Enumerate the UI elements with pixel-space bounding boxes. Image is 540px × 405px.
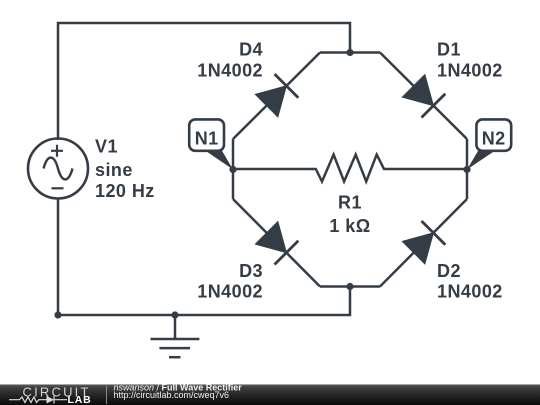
junction dot top vertex: [346, 49, 353, 56]
resistor R1: [233, 155, 467, 182]
svg-text:sine: sine: [95, 160, 133, 180]
label D2: [437, 261, 503, 302]
node N1: [189, 119, 233, 169]
footer separator: [106, 386, 107, 404]
svg-text:http://circuitlab.com/cweq7v6: http://circuitlab.com/cweq7v6: [114, 390, 230, 400]
svg-text:1N4002: 1N4002: [197, 61, 263, 81]
svg-text:D1: D1: [437, 40, 461, 60]
wire upper-left side: [233, 53, 320, 140]
svg-text:D4: D4: [239, 40, 263, 60]
svg-text:1 kΩ: 1 kΩ: [329, 216, 370, 236]
label V1 sine 120 Hz: [95, 137, 155, 202]
svg-text:1N4002: 1N4002: [437, 61, 503, 81]
svg-text:N1: N1: [195, 128, 219, 148]
wire lower-left side: [233, 199, 320, 287]
diode D3: [255, 221, 299, 265]
wire top rail: [58, 23, 350, 140]
wire bottom rail: [58, 287, 350, 316]
label R1 1 kOhm: [329, 193, 370, 237]
footer logo diode glyph: [47, 396, 55, 404]
wire V1 bottom to rail: [57, 199, 60, 316]
junction dot ground: [171, 311, 178, 318]
svg-text:120 Hz: 120 Hz: [95, 181, 155, 201]
svg-text:1N4002: 1N4002: [437, 282, 503, 302]
junction dot rail left: [54, 311, 61, 318]
diode D1: [402, 74, 446, 118]
wire left vertex segment: [232, 139, 235, 199]
wire right vertex segment: [466, 139, 469, 199]
node N2: [467, 119, 511, 169]
svg-text:1N4002: 1N4002: [197, 282, 263, 302]
wire diamond top segment: [320, 51, 380, 54]
diode D4: [255, 74, 299, 118]
wire diamond bottom segment: [320, 285, 380, 288]
ground: [151, 315, 200, 357]
label D3: [197, 261, 263, 302]
svg-text:V1: V1: [95, 137, 118, 157]
label D4: [197, 40, 263, 81]
wire lower-right side: [380, 199, 467, 287]
label D1: [437, 40, 503, 81]
svg-text:N2: N2: [482, 128, 506, 148]
diode D2: [402, 221, 446, 265]
voltage source V1: [28, 139, 88, 199]
svg-text:LAB: LAB: [68, 394, 92, 405]
junction dot N1: [229, 166, 236, 173]
svg-text:R1: R1: [338, 193, 362, 213]
footer logo squiggle: [9, 396, 67, 404]
svg-text:D2: D2: [437, 261, 461, 281]
wire upper-right side: [380, 53, 467, 140]
junction dot N2: [463, 166, 470, 173]
svg-text:D3: D3: [239, 261, 263, 281]
footer bar: [0, 384, 540, 405]
junction dot bottom vertex: [346, 283, 353, 290]
